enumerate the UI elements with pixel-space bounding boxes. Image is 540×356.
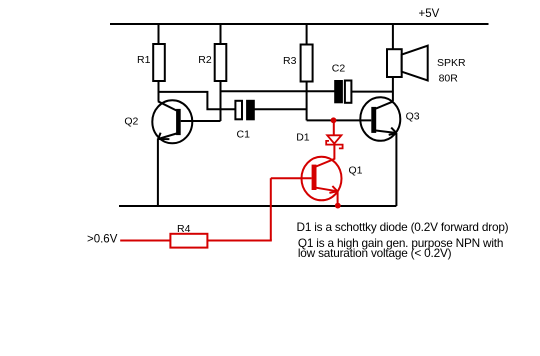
speaker SPKR horn	[402, 46, 428, 81]
ground rail wire	[119, 205, 396, 207]
svg-text:SPKR: SPKR	[437, 57, 466, 69]
node A junction dot on Q3 base	[331, 117, 337, 123]
wire C2 right to Q3 collector	[352, 91, 393, 93]
svg-text:>0.6V: >0.6V	[87, 234, 118, 246]
transistor Q3 emitter line	[376, 131, 397, 134]
wire R1 to rail	[158, 24, 160, 45]
svg-text:low saturation voltage (< 0.2V: low saturation voltage (< 0.2V)	[298, 246, 452, 260]
wire Q1 base	[271, 177, 312, 179]
wire Q1 emitter to ground rail	[337, 191, 339, 206]
capacitor C1 left plate	[235, 101, 242, 120]
capacitor C2 right plate	[345, 81, 352, 103]
wire D1 cathode to Q1 collector	[333, 145, 335, 160]
transistor Q1 circle	[302, 157, 342, 201]
resistor R4	[170, 234, 207, 248]
transistor Q2 base bar	[176, 109, 181, 135]
wire Q3 base	[307, 119, 372, 121]
transistor Q2 collector line	[158, 101, 177, 110]
wire D1 anode	[333, 120, 335, 135]
transistor Q3 collector line	[376, 101, 394, 108]
wire R4 left to input	[120, 240, 170, 242]
svg-text:D1: D1	[296, 132, 310, 144]
transistor Q1 emitter line	[316, 188, 337, 192]
transistor Q2 circle	[152, 100, 192, 143]
resistor R2	[215, 44, 227, 81]
wire C1 right to Q3 base node	[254, 108, 306, 110]
svg-text:R4: R4	[177, 223, 191, 235]
wire speaker bottom to Q3 collector	[392, 77, 394, 101]
svg-text:+5V: +5V	[419, 8, 440, 20]
wire R2 to rail	[220, 24, 222, 45]
wire Q2 base	[181, 120, 221, 122]
transistor Q3 circle	[360, 97, 400, 141]
capacitor C1 right plate	[247, 100, 255, 120]
svg-text:C2: C2	[332, 63, 346, 75]
resistor R1	[153, 44, 165, 81]
transistor Q1 base bar	[312, 165, 317, 190]
diode D1 schottky bar	[326, 141, 342, 149]
wire R3 to rail	[306, 24, 308, 45]
wire Q2 base node to C2 left	[221, 90, 335, 92]
transistor Q2 emitter arrow	[158, 133, 169, 139]
wire R4 right	[207, 240, 271, 242]
transistor Q1 emitter arrow	[329, 186, 337, 193]
svg-text:C1: C1	[237, 129, 251, 141]
speaker SPKR body	[387, 49, 402, 77]
svg-text:Q1: Q1	[349, 165, 363, 177]
svg-text:R1: R1	[137, 54, 151, 66]
svg-text:R2: R2	[198, 54, 212, 66]
capacitor C2 left plate	[335, 81, 343, 103]
svg-text:80R: 80R	[439, 72, 459, 84]
wire Q2 emitter to ground rail	[157, 139, 159, 207]
wire speaker to rail	[392, 24, 394, 50]
wire Q2 collector branch to C1 left	[159, 92, 236, 109]
wire R2 bottom to Q2 base	[220, 81, 222, 121]
svg-text:D1 is a schottky diode (0.2V f: D1 is a schottky diode (0.2V forward dro…	[297, 220, 509, 234]
+5V rail wire	[110, 23, 489, 25]
svg-text:Q3: Q3	[406, 111, 420, 123]
diode D1 triangle	[327, 135, 341, 143]
transistor Q3 base bar	[371, 107, 376, 133]
wire Q3 emitter to ground rail	[395, 133, 397, 206]
wire Q1 base down to R4	[270, 178, 272, 240]
wire R1 bottom to Q2 collector	[158, 81, 160, 102]
wire R3 bottom	[306, 81, 308, 120]
transistor Q3 emitter arrow	[389, 128, 397, 135]
transistor Q2 emitter line	[158, 134, 176, 140]
svg-text:R3: R3	[283, 55, 297, 67]
resistor R3	[301, 45, 313, 82]
node B junction dot on ground rail	[335, 203, 341, 209]
transistor Q1 collector line	[316, 159, 334, 167]
svg-text:Q2: Q2	[124, 116, 138, 128]
